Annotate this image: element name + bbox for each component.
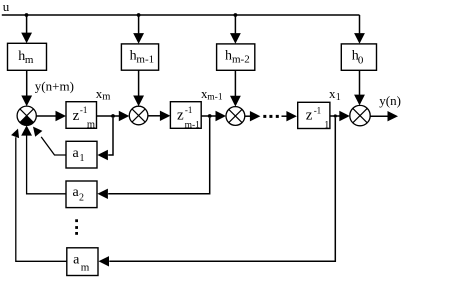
svg-text:-1: -1: [185, 105, 193, 115]
delay block Z_m-1: [170, 102, 201, 131]
svg-text:1: 1: [324, 120, 329, 131]
wire top rail: [2, 14, 360, 16]
feedback block a_2: [66, 181, 97, 208]
svg-text:y(n): y(n): [379, 93, 401, 108]
label x_m-1: [201, 86, 223, 102]
svg-text:y(n+m): y(n+m): [35, 79, 74, 94]
wire arrow into h_m: [21, 15, 32, 43]
wire a_1 output to multiplier M1: [33, 127, 66, 155]
wire Z_1 output with tap junction: [330, 111, 350, 121]
ellipsis dots: [263, 115, 279, 118]
coefficient block h_0: [341, 44, 376, 70]
delay block Z_1: [298, 102, 330, 131]
svg-text:-1: -1: [80, 105, 88, 115]
wire arrow M1 to delay Z_m: [36, 111, 66, 121]
svg-text:u: u: [3, 0, 10, 14]
multiplier M3: [226, 107, 245, 126]
multiplier M4: [350, 105, 370, 125]
coefficient block h_m-1: [121, 44, 158, 70]
vertical ellipsis dots: [75, 219, 78, 235]
wire arrow M2 to delay Z_m-1: [148, 111, 171, 121]
wire arrow ellipsis to delay Z_1: [282, 111, 297, 121]
svg-text:m-2: m-2: [232, 54, 250, 66]
wire arrow h_0 to multiplier M4: [354, 70, 365, 105]
feedback block a_1: [66, 141, 97, 168]
wire arrow h_m-2 to multiplier M3: [230, 70, 241, 106]
wire tap x_1 down to a_m: [99, 118, 336, 267]
svg-text:m: m: [102, 91, 110, 102]
svg-text:1: 1: [336, 92, 341, 103]
svg-text:z: z: [73, 108, 80, 124]
svg-text:a: a: [73, 146, 80, 161]
wire tap x_m-1 down to a_2: [97, 118, 209, 199]
feedback block a_m: [67, 248, 98, 276]
wire corner and arrow into h_0: [354, 15, 365, 44]
svg-text:m: m: [25, 54, 34, 66]
svg-text:z: z: [306, 108, 313, 124]
svg-text:m: m: [87, 120, 95, 131]
svg-text:2: 2: [79, 193, 84, 204]
coefficient block h_m-2: [217, 44, 255, 70]
junction dot above h_m-1: [137, 13, 141, 17]
wire arrow h_m-1 to multiplier M2: [133, 70, 144, 106]
wire output arrow y(n): [370, 111, 398, 121]
svg-text:0: 0: [358, 54, 364, 66]
svg-text:h: h: [225, 49, 232, 64]
svg-text:m-1: m-1: [207, 92, 223, 102]
wire a_2 output to multiplier M1: [21, 125, 66, 193]
svg-text:-1: -1: [314, 105, 322, 115]
label x_1: [329, 86, 341, 103]
label x_m: [96, 86, 111, 102]
wire arrow into h_m-2: [230, 15, 241, 44]
wire tap x_m down to a_1: [97, 118, 113, 160]
wire Z_m-1 output with tap junction: [201, 111, 226, 121]
wire a_m output to multiplier M1: [11, 129, 67, 262]
wire Z_m output with tap junction: [97, 111, 130, 121]
svg-text:1: 1: [80, 153, 85, 164]
svg-text:a: a: [73, 253, 80, 268]
wire arrow into h_m-1: [133, 15, 144, 44]
coefficient block h_m: [8, 43, 47, 70]
svg-text:m-1: m-1: [136, 54, 154, 66]
wire arrow M3 to ellipsis: [245, 111, 261, 121]
multiplier M1: [17, 106, 36, 125]
delay block Z_m: [66, 102, 97, 131]
wire arrow h_m to multiplier M1: [21, 70, 32, 106]
svg-text:m: m: [81, 261, 90, 273]
junction dot above h_m: [25, 13, 29, 17]
svg-text:z: z: [177, 108, 184, 124]
junction dot above h_m-2: [234, 13, 238, 17]
multiplier M2: [129, 106, 148, 125]
svg-text:m-1: m-1: [185, 120, 201, 130]
